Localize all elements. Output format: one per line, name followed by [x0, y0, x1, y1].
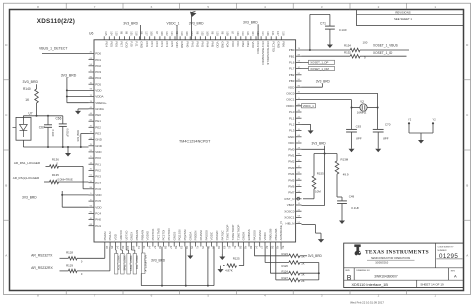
resistor R138 49.9 — [335, 157, 349, 201]
svg-text:108: 108 — [150, 31, 154, 36]
svg-text:NUMBER: NUMBER — [438, 250, 448, 252]
U6 left pin numbers and names — [90, 52, 107, 228]
ground (GNDA pin) — [75, 109, 89, 115]
ground (bottom pin) — [187, 247, 193, 260]
svg-text:PH0: PH0 — [95, 218, 101, 222]
svg-text:8PF: 8PF — [356, 137, 362, 141]
svg-text:1K: 1K — [301, 254, 304, 258]
svg-text:VDDC_1: VDDC_1 — [167, 21, 180, 25]
svg-text:GNDA: GNDA — [188, 232, 192, 241]
svg-text:SEE SHEET 1: SEE SHEET 1 — [394, 17, 412, 21]
svg-text:PM5: PM5 — [288, 178, 295, 182]
svg-text:45: 45 — [190, 246, 194, 249]
ground (R125 left) — [218, 266, 224, 273]
wires U6 JTAG pins to XRET port labels — [116, 247, 135, 254]
svg-text:XRET_TMS: XRET_TMS — [123, 255, 127, 270]
svg-text:PN5: PN5 — [211, 41, 215, 47]
svg-text:10/08/2010: 10/08/2010 — [375, 260, 389, 264]
crystal case ground lugs Y2 — [408, 117, 436, 138]
svg-text:98: 98 — [195, 31, 199, 34]
svg-text:OSC1: OSC1 — [286, 98, 295, 102]
svg-text:VDD: VDD — [216, 41, 220, 48]
svg-text:101: 101 — [271, 31, 275, 36]
svg-text:OSC0: OSC0 — [286, 92, 295, 96]
U6 bottom pin stubs — [105, 242, 281, 247]
svg-text:4.87K: 4.87K — [225, 268, 233, 272]
svg-text:122: 122 — [190, 31, 194, 36]
svg-text:PB1USB: PB1USB — [274, 229, 278, 241]
svg-text:PL3: PL3 — [289, 129, 295, 133]
wire XOSET_1_VBUS (U6 PB0) — [302, 49, 410, 51]
svg-text:REVISIONS: REVISIONS — [395, 11, 410, 15]
svg-text:PC2TDI: PC2TDI — [271, 41, 275, 52]
border zone column ticks — [66, 3, 407, 294]
svg-text:PM3: PM3 — [288, 166, 295, 170]
svg-text:40: 40 — [276, 246, 280, 249]
svg-text:Wed Feb 22 10:51:09 2017: Wed Feb 22 10:51:09 2017 — [350, 300, 384, 304]
svg-text:R124: R124 — [281, 270, 288, 274]
svg-text:XOSET_1_DM: XOSET_1_DM — [310, 67, 329, 71]
svg-text:U7: U7 — [29, 112, 33, 116]
svg-text:PN0: PN0 — [185, 41, 189, 47]
title block sheet name — [352, 282, 445, 287]
svg-text:U0TXD: U0TXD — [124, 230, 128, 241]
svg-text:PB4AIN: PB4AIN — [135, 230, 139, 241]
svg-text:C66: C66 — [56, 117, 62, 121]
svg-text:R128: R128 — [66, 251, 73, 255]
svg-text:3V3_BRD: 3V3_BRD — [76, 130, 80, 142]
svg-text:PQ1SSI: PQ1SSI — [178, 229, 182, 240]
svg-text:C49: C49 — [349, 194, 355, 198]
svg-text:53: 53 — [180, 246, 184, 249]
svg-text:B: B — [466, 183, 468, 187]
net AR_RS1_LOGGER wire — [14, 161, 89, 189]
diode U7 (TVS clamp) — [13, 112, 33, 148]
ground (C49) — [339, 218, 345, 225]
svg-text:VDD: VDD — [288, 141, 295, 145]
svg-text:PM6: PM6 — [288, 185, 295, 189]
svg-text:R155: R155 — [317, 172, 324, 176]
svg-text:REV: REV — [451, 270, 456, 272]
U6 right pin numbers and names — [284, 48, 301, 226]
wire (3V3_BRD VDD pin node) — [302, 142, 338, 206]
svg-text:GND: GND — [276, 41, 280, 49]
svg-text:VDD: VDD — [114, 233, 118, 240]
port label XOSET_1_DM — [302, 66, 335, 71]
svg-text:PE3: PE3 — [95, 132, 101, 136]
svg-text:AR_NRST_K: AR_NRST_K — [143, 255, 147, 272]
svg-text:DRAWING NO: DRAWING NO — [356, 269, 370, 272]
svg-text:AR_RS232TX: AR_RS232TX — [31, 254, 53, 258]
svg-text:56: 56 — [270, 246, 274, 249]
net label 3V3_BRD (U6 VDD right) — [302, 80, 331, 88]
svg-text:PA4SSI: PA4SSI — [199, 230, 203, 240]
svg-text:AR_RS232RX: AR_RS232RX — [31, 266, 53, 270]
svg-text:PN1: PN1 — [190, 41, 194, 47]
svg-text:VDD: VDD — [95, 205, 102, 209]
svg-text:0 DNI=TRUE: 0 DNI=TRUE — [58, 177, 73, 181]
svg-text:127: 127 — [145, 31, 149, 36]
sheet title XDS110(2/2) — [37, 18, 75, 25]
svg-text:59: 59 — [174, 246, 178, 249]
title block frame — [344, 243, 464, 287]
U6 bottom pin numbers and names — [103, 221, 285, 249]
svg-text:XOSC0: XOSC0 — [284, 209, 295, 213]
svg-text:R125: R125 — [233, 257, 240, 261]
svg-text:PC3TDO: PC3TDO — [167, 228, 171, 241]
svg-text:PD3: PD3 — [95, 70, 101, 74]
svg-text:98: 98 — [119, 31, 123, 34]
svg-text:Y2: Y2 — [408, 117, 412, 121]
capacitor C71 0.1UF (VBUS filter) — [310, 14, 347, 50]
svg-text:3V3_BRD: 3V3_BRD — [23, 80, 39, 84]
U6 right pin stubs — [296, 50, 302, 224]
svg-text:RST_N: RST_N — [285, 197, 295, 201]
svg-text:3V3_BRD: 3V3_BRD — [243, 20, 258, 24]
ground (C71) — [327, 42, 333, 49]
svg-text:109: 109 — [205, 31, 209, 36]
svg-text:16MHZ: 16MHZ — [357, 111, 367, 115]
svg-text:GND: GND — [140, 41, 144, 49]
svg-text:R135: R135 — [52, 173, 59, 177]
svg-text:PE5: PE5 — [109, 41, 113, 47]
svg-text:PL1: PL1 — [289, 116, 295, 120]
capacitor C67 0.1UF — [39, 116, 55, 147]
svg-text:R127: R127 — [281, 276, 288, 280]
svg-text:49.9: 49.9 — [343, 173, 349, 177]
wire (HIB_N pin) — [302, 225, 322, 234]
svg-text:PB0USB: PB0USB — [268, 229, 272, 241]
svg-text:PB3: PB3 — [246, 41, 250, 47]
svg-text:121: 121 — [170, 31, 174, 36]
svg-text:Y2: Y2 — [360, 100, 364, 104]
svg-text:PE4: PE4 — [104, 41, 108, 47]
U6 top pin numbers and names — [104, 31, 285, 65]
svg-text:103: 103 — [236, 31, 240, 36]
svg-text:58: 58 — [238, 246, 242, 249]
svg-text:XRET_TDO: XRET_TDO — [129, 255, 133, 271]
svg-text:37: 37 — [260, 246, 264, 249]
svg-text:SIZE: SIZE — [345, 270, 350, 272]
svg-text:R152: R152 — [344, 50, 351, 54]
svg-text:VBUS_1_DETECT: VBUS_1_DETECT — [39, 46, 67, 50]
port label VDDC_1 (right) — [296, 104, 316, 109]
port label AR_NRST_KBL — [141, 247, 147, 286]
svg-text:118: 118 — [281, 31, 285, 36]
svg-text:VDDC_1: VDDC_1 — [303, 104, 314, 108]
net VBUS_1_DETECT wire to U6 pin PD0 — [39, 46, 89, 53]
svg-text:PB0: PB0 — [289, 48, 295, 52]
svg-text:99: 99 — [124, 31, 128, 34]
svg-text:VDDC: VDDC — [286, 104, 295, 108]
svg-text:PE2: PE2 — [95, 125, 101, 129]
svg-text:3V3_BRD: 3V3_BRD — [61, 73, 77, 77]
svg-text:A: A — [454, 274, 457, 279]
port label XOSET_1_DP — [302, 60, 335, 64]
svg-text:XRET_TCK: XRET_TCK — [116, 255, 120, 270]
power flag 3V3_BRD (top, over pin col1) — [123, 21, 140, 39]
resistor R129 0 — [66, 263, 83, 276]
svg-text:3V3_BRD: 3V3_BRD — [22, 196, 37, 200]
net label 3V3_BRD (bottom) — [151, 247, 166, 286]
resistor R124 1K — [281, 270, 318, 277]
svg-text:120: 120 — [216, 31, 220, 36]
svg-text:U0RXD: U0RXD — [119, 229, 123, 240]
svg-text:45: 45 — [201, 246, 205, 249]
svg-text:PA2SSI: PA2SSI — [252, 230, 256, 240]
svg-text:0.01UF: 0.01UF — [65, 129, 69, 138]
svg-text:100: 100 — [160, 31, 164, 36]
svg-text:R13M: R13M — [341, 157, 349, 161]
svg-text:100: 100 — [185, 31, 189, 36]
svg-text:PC4: PC4 — [95, 212, 101, 216]
svg-text:PG1AI: PG1AI — [108, 231, 112, 240]
svg-text:43: 43 — [137, 246, 141, 249]
power flag 3V3_BRD (top, right) — [243, 20, 258, 39]
resistor R127 2K — [281, 276, 318, 283]
svg-text:PA0: PA0 — [231, 41, 235, 47]
svg-text:3WR1643B0007: 3WR1643B0007 — [374, 274, 398, 278]
svg-text:67: 67 — [169, 246, 173, 249]
node wire (R140/U7/C67/C66 junction) — [23, 115, 62, 117]
svg-text:PA7I2C: PA7I2C — [220, 229, 224, 240]
wire XOSET_1_ID (U6 PB1) — [302, 55, 407, 57]
svg-text:XDS110(2/2): XDS110(2/2) — [37, 18, 75, 25]
title block company name — [365, 249, 429, 264]
resistor R154 100 — [344, 41, 368, 52]
svg-text:PN3: PN3 — [200, 41, 204, 47]
svg-text:36: 36 — [105, 246, 109, 249]
svg-text:51: 51 — [281, 246, 285, 249]
svg-text:PD5: PD5 — [95, 82, 101, 86]
svg-text:62: 62 — [265, 246, 269, 249]
port labels XRET_TCK XRET_TMS XRET_TDO XRET_TDI — [115, 254, 140, 275]
capacitor C66 0.01UF — [56, 116, 70, 147]
svg-text:PA5SSI: PA5SSI — [204, 230, 208, 240]
U6 top pin stubs — [104, 36, 281, 40]
ground (HIB_N) — [318, 233, 324, 243]
U6 left pin stubs — [89, 54, 95, 226]
wire (U6 VDD pin jumper) — [81, 134, 89, 148]
svg-text:PD4: PD4 — [95, 76, 101, 80]
svg-text:AONWAKE_N: AONWAKE_N — [279, 221, 283, 240]
svg-text:R129: R129 — [66, 263, 73, 267]
resistor R126 1K — [281, 261, 318, 268]
svg-text:59: 59 — [164, 246, 168, 249]
svg-text:GND: GND — [180, 41, 184, 49]
svg-text:R126: R126 — [281, 264, 288, 268]
revisions table — [357, 10, 464, 26]
svg-text:GNDK: GNDK — [242, 232, 246, 241]
svg-text:PP0: PP0 — [145, 41, 149, 47]
svg-text:61: 61 — [142, 246, 146, 249]
svg-text:3V3_BRD: 3V3_BRD — [308, 254, 323, 258]
resistor R155 10M — [303, 154, 324, 199]
svg-text:PS0EN: PS0EN — [194, 231, 198, 241]
svg-text:61: 61 — [228, 246, 232, 249]
power flag 3V3_BRD (above R140) — [23, 80, 39, 89]
svg-text:PQ2SSI: PQ2SSI — [183, 229, 187, 240]
svg-text:CODE IDENT/TY: CODE IDENT/TY — [438, 247, 455, 249]
svg-text:0.1UF: 0.1UF — [351, 206, 359, 210]
svg-text:ERBIAS: ERBIAS — [247, 229, 251, 240]
svg-text:PQ4: PQ4 — [226, 41, 230, 47]
svg-text:PB1: PB1 — [289, 54, 295, 58]
svg-text:0.1UF: 0.1UF — [51, 130, 55, 137]
capacitor C63 8PF — [346, 125, 362, 146]
svg-text:115: 115 — [104, 31, 108, 36]
svg-text:R123: R123 — [281, 252, 288, 256]
svg-text:PD0: PD0 — [95, 52, 101, 56]
svg-text:PJ0: PJ0 — [130, 41, 134, 47]
svg-text:R136: R136 — [52, 157, 59, 161]
svg-text:102: 102 — [200, 31, 204, 36]
svg-text:97: 97 — [231, 31, 235, 34]
svg-text:VDD: VDD — [95, 89, 102, 93]
Texas Instruments logo — [354, 245, 360, 256]
svg-text:TEXAS INSTRUMENTS: TEXAS INSTRUMENTS — [365, 249, 429, 255]
wire (pin to R127) — [276, 247, 289, 280]
svg-text:34: 34 — [116, 246, 120, 249]
svg-text:T3NETKOP: T3NETKOP — [226, 225, 230, 241]
svg-text:33: 33 — [126, 246, 130, 249]
svg-text:PP5: PP5 — [170, 41, 174, 47]
svg-text:PE7: PE7 — [120, 41, 124, 47]
svg-text:68: 68 — [249, 246, 253, 249]
net label XOSET_1_VBUS — [373, 44, 398, 48]
ground (C63) — [349, 146, 355, 152]
svg-text:3V3_BRD: 3V3_BRD — [151, 258, 166, 262]
svg-text:AR_RS(L)LOGGER: AR_RS(L)LOGGER — [13, 176, 40, 180]
svg-text:35: 35 — [206, 246, 210, 249]
svg-text:GND: GND — [288, 135, 296, 139]
wire OSC0 to crystal — [302, 100, 353, 130]
wire (bottom of clamp network to U6 GND pin) — [23, 146, 88, 148]
svg-text:PM7: PM7 — [288, 191, 295, 195]
svg-text:114: 114 — [261, 31, 265, 36]
svg-text:PM4: PM4 — [288, 172, 295, 176]
svg-text:PB3: PB3 — [289, 79, 295, 83]
wire (pin to R123) — [254, 247, 288, 256]
resistor R123 1K — [281, 252, 307, 258]
svg-text:PA3SSI: PA3SSI — [258, 230, 262, 240]
net AR_RS232RX wire — [31, 247, 110, 271]
svg-text:PB2: PB2 — [289, 73, 295, 77]
svg-text:PJ1: PJ1 — [135, 41, 139, 47]
net label XOSET_1_ID — [373, 51, 393, 55]
svg-text:TM4C1294NCPDT: TM4C1294NCPDT — [179, 139, 211, 143]
svg-text:R140: R140 — [23, 87, 31, 91]
net AR_RS232TX wire — [31, 247, 105, 259]
svg-text:AR_RS1_LOGGER: AR_RS1_LOGGER — [14, 161, 41, 165]
ground (clamp network) — [65, 147, 71, 157]
wire OSC1 to crystal — [302, 93, 379, 129]
svg-text:PN4: PN4 — [206, 41, 210, 47]
svg-text:HIB_N: HIB_N — [286, 222, 295, 226]
svg-text:41: 41 — [196, 246, 200, 249]
svg-text:104: 104 — [109, 31, 113, 36]
op-amp U6 microcontroller TM4C1294NCPDT body — [89, 31, 296, 242]
svg-text:XOSC1: XOSC1 — [284, 216, 295, 220]
svg-text:PC1TMS/SWDIO: PC1TMS/SWDIO — [261, 41, 265, 65]
resistor R152 0 — [344, 50, 366, 59]
svg-text:T1NETKOP: T1NETKOP — [236, 225, 240, 241]
svg-text:PP3: PP3 — [160, 41, 164, 47]
resistor R136 0 — [50, 157, 60, 168]
capacitor C70 8PF — [373, 122, 391, 146]
svg-text:50: 50 — [158, 246, 162, 249]
svg-text:3V3_BRD: 3V3_BRD — [316, 80, 331, 84]
svg-text:VDDA: VDDA — [95, 95, 103, 99]
svg-text:48: 48 — [244, 246, 248, 249]
svg-text:107: 107 — [276, 31, 280, 36]
svg-text:122: 122 — [165, 31, 169, 36]
svg-text:XDS110 Interface_1B: XDS110 Interface_1B — [352, 283, 389, 287]
svg-text:SHEET 14 OF 19: SHEET 14 OF 19 — [420, 282, 444, 286]
svg-text:PL0: PL0 — [289, 110, 295, 114]
svg-text:PM2: PM2 — [288, 160, 295, 164]
svg-text:C70: C70 — [385, 122, 391, 126]
svg-text:98: 98 — [211, 31, 215, 34]
svg-text:113: 113 — [241, 31, 245, 36]
svg-text:64: 64 — [148, 246, 152, 249]
ground (R125 node) — [219, 247, 225, 261]
svg-text:PE0: PE0 — [95, 113, 101, 117]
svg-text:U6: U6 — [89, 31, 93, 35]
svg-text:3V3_BRD: 3V3_BRD — [312, 142, 327, 146]
svg-text:121: 121 — [246, 31, 250, 36]
svg-text:0.1UF: 0.1UF — [339, 28, 347, 32]
svg-text:8PF: 8PF — [383, 137, 389, 141]
svg-text:63: 63 — [222, 246, 226, 249]
svg-text:49: 49 — [217, 246, 221, 249]
U6 RST_N pin inversion bubble — [297, 198, 300, 201]
svg-text:51: 51 — [233, 246, 237, 249]
svg-text:XOSET_1_DP: XOSET_1_DP — [310, 61, 328, 65]
svg-text:PL6: PL6 — [289, 61, 295, 65]
ground (U6 right GND pin) — [302, 124, 314, 133]
svg-text:XRET_TDI: XRET_TDI — [135, 255, 139, 269]
border zone row ticks — [4, 80, 471, 220]
svg-text:97: 97 — [155, 31, 159, 34]
svg-text:57: 57 — [153, 246, 157, 249]
svg-text:VDDC: VDDC — [210, 231, 214, 240]
plot date — [350, 300, 384, 304]
svg-text:PE6: PE6 — [114, 41, 118, 47]
svg-text:PB5AIN: PB5AIN — [140, 230, 144, 241]
svg-text:69: 69 — [132, 246, 136, 249]
svg-text:PC0TCK/SWCLK: PC0TCK/SWCLK — [266, 41, 270, 64]
wire (AONWAKE_N pin stub) — [280, 247, 282, 250]
svg-text:PN2: PN2 — [195, 41, 199, 47]
resistor R135 0 DNI=TRUE — [50, 173, 73, 184]
svg-text:VDD: VDD — [95, 150, 102, 154]
svg-text:C63: C63 — [356, 125, 362, 129]
svg-text:101: 101 — [130, 31, 134, 36]
svg-text:109: 109 — [226, 31, 230, 36]
svg-text:PG0AI: PG0AI — [103, 231, 107, 240]
svg-text:34: 34 — [254, 246, 258, 249]
svg-text:GNDA: GNDA — [95, 107, 104, 111]
power flag 3V3_BRD (left VDD pins lower) — [22, 191, 89, 207]
svg-text:PB2: PB2 — [241, 41, 245, 47]
resistor R125 4.87K — [223, 247, 244, 273]
svg-text:B: B — [347, 275, 352, 282]
svg-text:T2NETKOP: T2NETKOP — [231, 225, 235, 241]
svg-text:XOSET_1_VBUS: XOSET_1_VBUS — [373, 44, 398, 48]
svg-text:PC5: PC5 — [95, 199, 101, 203]
svg-text:66: 66 — [121, 246, 125, 249]
